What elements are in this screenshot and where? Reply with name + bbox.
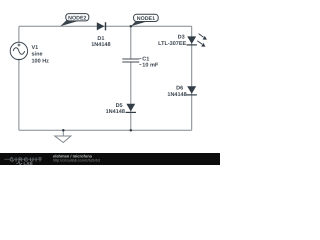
svg-text:10 mF: 10 mF: [142, 62, 159, 68]
LED D3: [187, 34, 207, 47]
svg-text:D6: D6: [176, 85, 183, 91]
junction node bottom middle: [130, 129, 133, 132]
voltage source V1: [10, 42, 27, 59]
svg-text:V1: V1: [32, 45, 39, 51]
capacitor C1: [122, 59, 139, 62]
ground: [55, 130, 71, 142]
node label NODE2: [60, 14, 89, 27]
svg-text:sine: sine: [32, 52, 43, 58]
wire left vertical lower: [18, 60, 20, 131]
svg-text:1N4148: 1N4148: [91, 42, 110, 48]
diode D1: [97, 22, 106, 30]
svg-text:LTL-307EE: LTL-307EE: [158, 41, 186, 47]
diode D6: [187, 86, 197, 95]
wire left vertical upper: [18, 26, 20, 42]
wire middle branch above C1: [130, 26, 132, 58]
wire bottom ground net: [19, 129, 192, 131]
svg-text:1N4148: 1N4148: [167, 92, 186, 98]
CircuitLab logo wordmark: [4, 157, 43, 167]
svg-text:D3: D3: [178, 35, 185, 41]
diode D5: [126, 104, 136, 113]
footer bar: [0, 153, 220, 165]
junction node at NODE1: [130, 25, 133, 28]
svg-text:1N4148: 1N4148: [106, 109, 125, 115]
svg-text:NODE1: NODE1: [137, 16, 155, 22]
svg-text:LAB: LAB: [24, 161, 34, 165]
svg-text:100 Hz: 100 Hz: [32, 59, 50, 65]
wire right branch: [191, 26, 193, 130]
svg-text:D5: D5: [116, 103, 123, 109]
svg-text:http://circuitlab.com/c/5z5r53: http://circuitlab.com/c/5z5r53: [53, 158, 100, 162]
junction node at ground: [62, 129, 65, 132]
wire middle branch below C1: [130, 62, 132, 130]
wire top net NODE2/NODE1: [19, 25, 192, 27]
label C1 leader dashes: [139, 59, 141, 65]
node label NODE1: [131, 14, 158, 26]
svg-text:NODE2: NODE2: [68, 15, 86, 21]
